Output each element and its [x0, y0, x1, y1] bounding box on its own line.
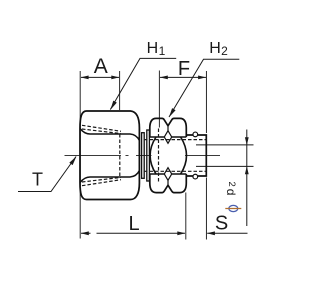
dimension S	[207, 232, 247, 234]
knurled nut (second) outline top lobes	[150, 118, 187, 137]
leader H1	[110, 58, 176, 109]
phi symbol	[229, 205, 238, 211]
knurled nut division lines	[150, 136, 187, 138]
extension line F left	[158, 71, 160, 128]
dimension L	[81, 232, 185, 234]
dimension phi-d2 vertical	[246, 130, 248, 227]
diamond facet top	[164, 131, 171, 144]
svg-text:F: F	[178, 58, 190, 80]
centerline	[65, 155, 221, 157]
diamond facet bottom	[164, 168, 171, 181]
hex nut face line bottom	[80, 171, 139, 183]
o-ring dot bottom	[193, 174, 198, 179]
svg-text:H1: H1	[147, 40, 166, 58]
hex nut body (large, left)	[80, 111, 139, 200]
svg-text:L: L	[128, 213, 139, 235]
dimension F	[160, 76, 206, 78]
dimension A	[81, 76, 119, 78]
extension line L right	[185, 193, 187, 240]
extension line A/L left	[79, 71, 81, 239]
hidden thread lines top	[82, 125, 121, 131]
male stub	[186, 135, 206, 176]
extension line A right	[119, 71, 121, 110]
svg-text:A: A	[94, 55, 108, 78]
gasket washer 1	[142, 133, 145, 179]
hidden thread depth line	[119, 134, 121, 177]
phi-d2 extension lines	[196, 144, 254, 146]
svg-text:d: d	[224, 189, 238, 196]
knurled nut barrel left	[150, 137, 156, 174]
hidden thread lines bottom	[82, 180, 121, 186]
svg-text:H2: H2	[209, 40, 228, 58]
o-ring dot top	[193, 132, 198, 137]
label phi d2 rotated	[224, 189, 238, 196]
svg-text:2: 2	[226, 182, 237, 187]
svg-text:T: T	[32, 170, 43, 190]
hidden shoulder line in knurled nut	[158, 129, 160, 184]
knurled nut bottom lobes	[150, 174, 187, 193]
gasket washer 2	[147, 130, 150, 181]
leader T	[18, 157, 76, 192]
notch edge top	[167, 126, 169, 131]
extension line F/S right	[205, 71, 207, 133]
svg-text:S: S	[215, 213, 228, 235]
hex nut face line top	[80, 129, 139, 141]
leader H2	[169, 59, 239, 117]
notch edge bottom	[167, 180, 169, 185]
hidden bore lines	[144, 139, 206, 141]
knurled nut barrel right	[181, 137, 187, 174]
